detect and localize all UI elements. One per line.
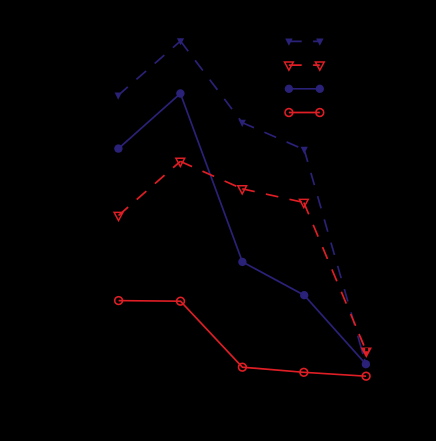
legend entry 1 right triangle	[316, 39, 324, 46]
red solid marker 5	[362, 372, 370, 380]
legend entry 2 right triangle	[315, 62, 324, 70]
red dashed marker 2	[176, 158, 185, 166]
blue solid marker 2	[176, 89, 184, 97]
red dashed line segment 2	[180, 161, 242, 188]
blue solid marker 5	[362, 360, 370, 368]
series: red dashed line segment 1	[119, 161, 181, 215]
red solid marker 1	[115, 297, 123, 305]
blue dashed marker 4	[301, 147, 308, 154]
red dashed marker 1	[114, 212, 123, 220]
legend entry 1: blue dashed line	[289, 40, 320, 42]
blue dashed line segment 4	[304, 150, 366, 365]
red dashed marker 4	[299, 199, 308, 207]
legend entry 2 left triangle	[285, 62, 294, 70]
legend entry 4: red solid line	[289, 112, 320, 114]
legend entry 2: red dashed line	[289, 64, 320, 66]
red solid marker 2	[177, 297, 185, 305]
blue solid marker 1	[114, 144, 122, 152]
series: blue dashed line segment 1	[118, 41, 180, 95]
black hole inside last red triangle	[365, 348, 368, 351]
red solid marker 4	[300, 368, 308, 376]
series: red solid line	[119, 301, 367, 377]
legend entry 3 left circle	[285, 85, 293, 93]
red solid marker 3	[239, 363, 247, 371]
legend entry 3 right circle	[316, 85, 324, 93]
red dashed marker 3	[238, 186, 247, 194]
blue dashed marker 5 (hidden under blue circle)	[362, 361, 369, 368]
legend entry 1 left triangle	[285, 39, 293, 46]
blue dashed line segment 2	[181, 41, 243, 123]
series: blue solid line	[118, 94, 366, 365]
red dashed marker 5 (line overdraw makes it look filled)	[362, 348, 371, 356]
blue dashed marker 3	[239, 120, 246, 127]
legend entry 4 right circle	[316, 109, 324, 117]
legend entry 3: blue solid line	[289, 88, 320, 90]
red dashed line end segment into last marker	[359, 334, 364, 346]
red dashed line segment 4	[304, 203, 363, 344]
blue dashed marker 2	[177, 38, 184, 45]
blue solid marker 3	[238, 258, 246, 266]
blue solid marker 4	[300, 291, 308, 299]
red dashed line segment 3	[242, 189, 304, 203]
legend entry 4 left circle	[285, 109, 293, 117]
blue dashed marker 1	[115, 93, 122, 100]
blue dashed line end dash near last point	[361, 347, 363, 354]
blue dashed line segment 3	[242, 123, 304, 150]
